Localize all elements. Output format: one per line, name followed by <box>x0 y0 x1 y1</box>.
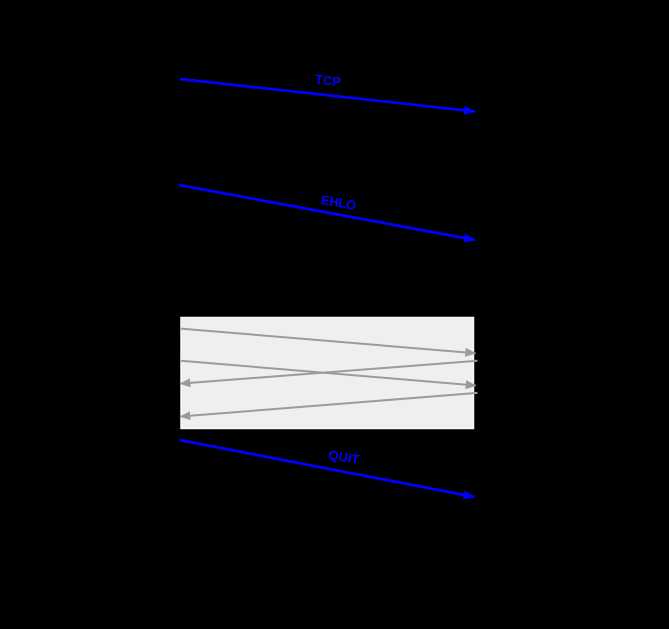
message arrow TCP <box>180 79 475 112</box>
gray arrow 1 (client to server) <box>181 329 475 354</box>
message arrow QUIT <box>179 440 474 497</box>
gray arrow 3 (server to client) <box>180 361 477 384</box>
gray arrow 4 (server to client) <box>180 393 477 417</box>
gray arrow 2 (client to server) <box>181 361 476 386</box>
svg-text:TCP: TCP <box>314 71 342 89</box>
gray exchange box <box>181 318 474 429</box>
message arrow EHLO <box>179 185 475 240</box>
